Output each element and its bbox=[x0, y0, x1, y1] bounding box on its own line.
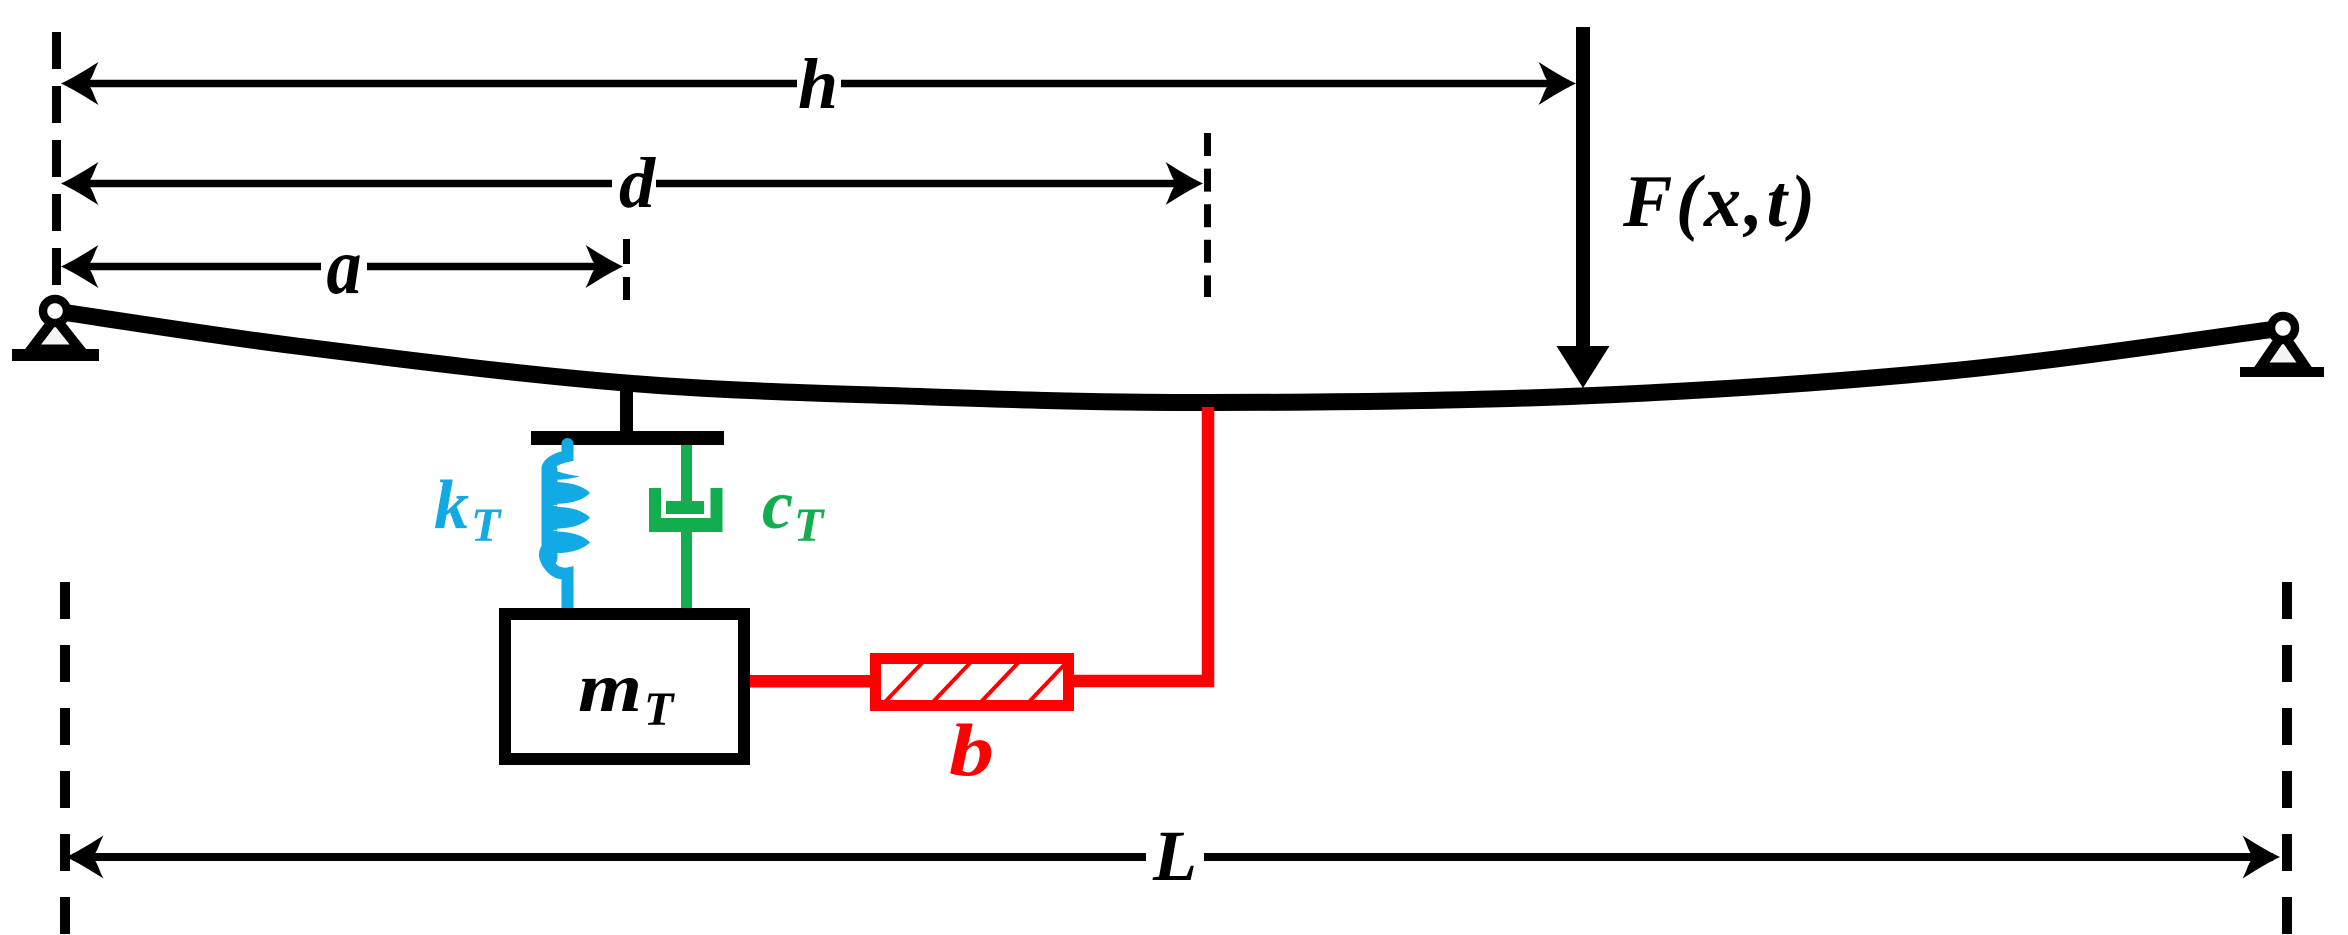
spring coil turn 3 bbox=[550, 532, 590, 553]
dashed reference line bottom-right bbox=[2282, 582, 2292, 935]
svg-text:T: T bbox=[471, 499, 502, 552]
pin circle left bbox=[43, 299, 67, 323]
wire: h dimension line bbox=[68, 80, 1569, 88]
damper piston rod bbox=[681, 445, 692, 505]
arrowhead L right bbox=[2243, 836, 2281, 879]
dimension arrow h bbox=[61, 44, 1576, 124]
svg-text:a: a bbox=[327, 223, 362, 311]
spring bottom lead bbox=[545, 545, 568, 608]
dimension arrow a bbox=[61, 223, 623, 311]
damper cT bbox=[649, 445, 723, 608]
arrowhead d right bbox=[1166, 162, 1204, 205]
right pin support bbox=[2240, 316, 2324, 377]
svg-text:b: b bbox=[949, 710, 994, 792]
spring coil top turn taper bbox=[543, 464, 580, 480]
spring coil gap 2 bbox=[554, 527, 587, 533]
dimension arrow L bbox=[66, 816, 2280, 896]
inerter hatch strokes bbox=[884, 663, 1066, 703]
force F arrowhead bbox=[1557, 346, 1610, 388]
arrowhead a right bbox=[586, 245, 624, 288]
support triangle right bbox=[2260, 334, 2306, 368]
svg-text:T: T bbox=[644, 683, 675, 736]
hanger stub on beam at x=a bbox=[620, 378, 633, 433]
force arrow F(x,t) bbox=[1557, 27, 1610, 388]
spring coil spine bbox=[542, 462, 558, 566]
label L bbox=[1146, 849, 1204, 865]
label h bbox=[797, 76, 841, 91]
spring coil gap 1 bbox=[554, 502, 587, 508]
wire: a dimension line bbox=[68, 263, 616, 271]
svg-text:k: k bbox=[434, 467, 469, 544]
dashed reference line top-left bbox=[52, 32, 61, 300]
svg-text:h: h bbox=[798, 44, 838, 124]
ground line right bbox=[2240, 367, 2324, 377]
beam (deflected) bbox=[55, 311, 2283, 403]
svg-text:F(x,t): F(x,t) bbox=[1622, 161, 1819, 243]
svg-text:c: c bbox=[762, 467, 793, 544]
support triangle left bbox=[31, 318, 80, 350]
svg-text:T: T bbox=[794, 499, 825, 552]
damper cylinder left wall bbox=[649, 488, 661, 528]
damper piston plate bbox=[666, 501, 704, 514]
label a bbox=[321, 259, 367, 274]
wire: L dimension line bbox=[73, 853, 2273, 861]
dashed reference line bottom-left bbox=[60, 582, 70, 935]
label d bbox=[612, 176, 656, 191]
pin circle right bbox=[2271, 316, 2295, 340]
damper lower rod bbox=[681, 532, 692, 608]
spring coil turn 1 bbox=[550, 482, 590, 503]
red wire mass to inerter bbox=[750, 675, 870, 688]
dashed marker line at x=d bbox=[1204, 133, 1211, 297]
arrowhead a left bbox=[61, 245, 99, 288]
wire: d dimension line bbox=[68, 180, 1196, 188]
svg-text:d: d bbox=[619, 143, 656, 223]
mass mT box bbox=[505, 614, 744, 759]
left pin support bbox=[12, 299, 99, 361]
arrowhead h right bbox=[1539, 62, 1577, 105]
red wire inerter to beam bbox=[1074, 407, 1208, 681]
arrowhead h left bbox=[61, 62, 99, 105]
damper cylinder floor bbox=[649, 518, 723, 532]
svg-text:m: m bbox=[578, 650, 642, 727]
svg-text:L: L bbox=[1152, 816, 1197, 896]
arrowhead d left bbox=[61, 162, 99, 205]
dashed marker line at x=a bbox=[623, 239, 630, 300]
hanger bar bbox=[531, 431, 724, 445]
arrowhead L left bbox=[66, 836, 104, 879]
damper cylinder right wall bbox=[711, 488, 723, 528]
dimension arrow d bbox=[61, 143, 1203, 223]
spring coil turn 2 bbox=[550, 507, 590, 528]
ground line left bbox=[12, 349, 99, 361]
inerter b box with hatch bbox=[876, 659, 1069, 706]
force F shaft bbox=[1576, 27, 1590, 349]
spring top lead bbox=[548, 444, 568, 468]
